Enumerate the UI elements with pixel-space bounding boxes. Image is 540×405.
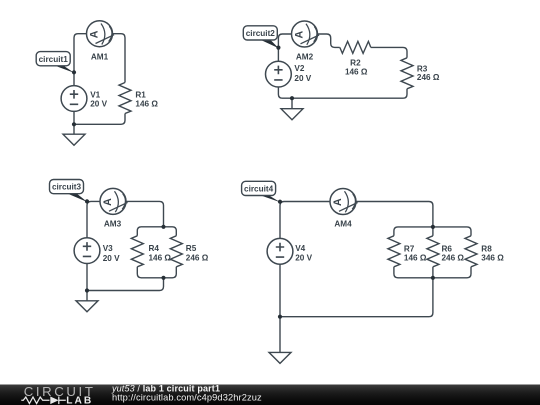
svg-text:AM4: AM4: [334, 219, 352, 228]
svg-text:146 Ω: 146 Ω: [345, 67, 368, 76]
svg-text:20 V: 20 V: [295, 253, 312, 262]
svg-text:AM2: AM2: [296, 52, 314, 61]
svg-text:R2: R2: [350, 59, 361, 68]
svg-text:20 V: 20 V: [90, 100, 107, 109]
svg-text:346 Ω: 346 Ω: [481, 254, 504, 263]
svg-text:circuit3: circuit3: [52, 183, 82, 192]
svg-text:146 Ω: 146 Ω: [135, 100, 158, 109]
svg-text:20 V: 20 V: [103, 254, 120, 263]
svg-text:R8: R8: [481, 245, 492, 254]
svg-text:R6: R6: [442, 245, 453, 254]
svg-text:R3: R3: [417, 64, 428, 73]
svg-text:LAB: LAB: [66, 395, 93, 405]
svg-text:A: A: [89, 30, 101, 38]
svg-text:R4: R4: [149, 244, 160, 253]
svg-text:R1: R1: [135, 91, 146, 100]
svg-text:circuit1: circuit1: [39, 55, 69, 64]
svg-text:AM1: AM1: [91, 52, 109, 61]
svg-text:20 V: 20 V: [294, 74, 311, 83]
svg-text:A: A: [332, 198, 344, 206]
svg-text:circuit4: circuit4: [244, 185, 274, 194]
svg-text:246 Ω: 246 Ω: [442, 254, 465, 263]
svg-text:AM3: AM3: [104, 220, 122, 229]
svg-text:R5: R5: [186, 244, 197, 253]
svg-text:http://circuitlab.com/c4p9d32h: http://circuitlab.com/c4p9d32hr2zuz: [112, 393, 262, 403]
svg-text:146 Ω: 146 Ω: [404, 254, 427, 263]
svg-text:A: A: [102, 198, 114, 206]
svg-text:146 Ω: 146 Ω: [149, 253, 172, 262]
svg-text:246 Ω: 246 Ω: [186, 253, 209, 262]
svg-text:V4: V4: [295, 244, 305, 253]
svg-text:246 Ω: 246 Ω: [417, 73, 440, 82]
svg-text:V2: V2: [294, 64, 304, 73]
svg-text:R7: R7: [404, 245, 415, 254]
svg-text:A: A: [294, 31, 306, 39]
svg-text:V1: V1: [90, 91, 100, 100]
svg-text:V3: V3: [103, 244, 113, 253]
svg-text:circuit2: circuit2: [246, 29, 276, 38]
